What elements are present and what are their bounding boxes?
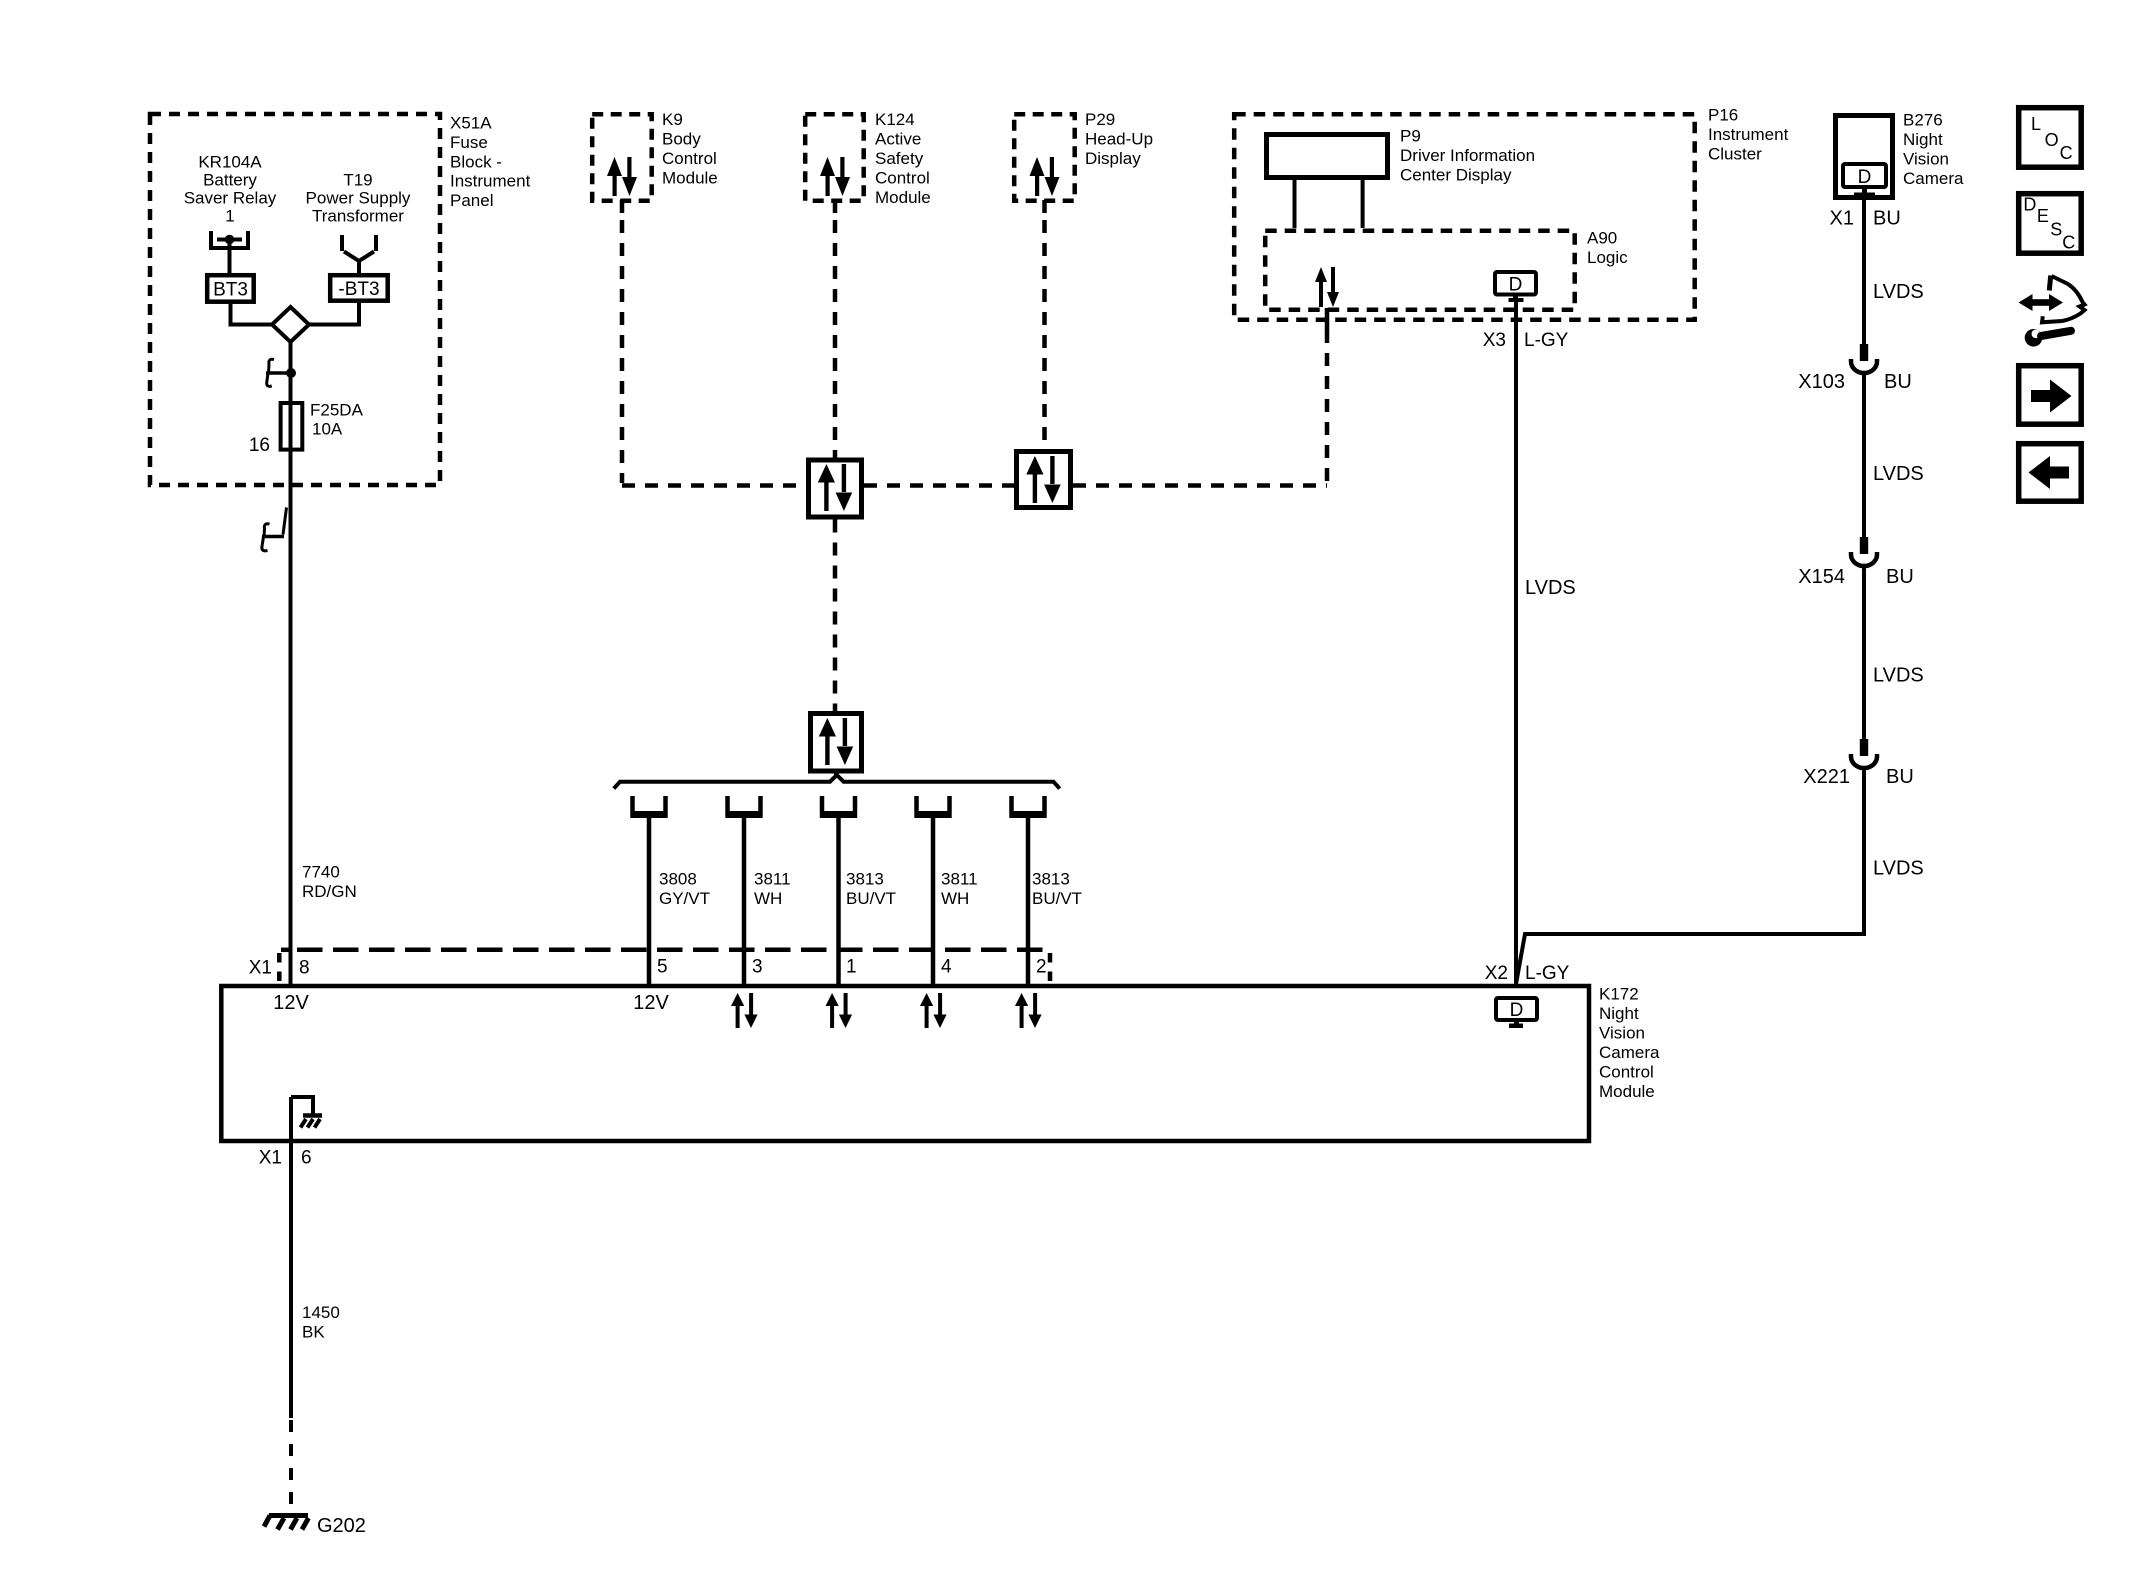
svg-text:K124: K124	[875, 110, 915, 129]
svg-text:12V: 12V	[633, 992, 669, 1014]
svg-text:Body: Body	[662, 130, 701, 149]
svg-text:G202: G202	[317, 1515, 366, 1537]
svg-text:WH: WH	[754, 889, 782, 908]
svg-text:5: 5	[657, 957, 668, 978]
svg-text:4: 4	[941, 957, 952, 978]
svg-text:D: D	[2023, 195, 2036, 215]
svg-text:X221: X221	[1803, 766, 1850, 788]
svg-text:E: E	[2037, 206, 2049, 226]
svg-text:X1: X1	[1830, 208, 1854, 230]
svg-text:K172: K172	[1599, 985, 1639, 1004]
svg-text:1: 1	[225, 207, 234, 226]
svg-text:Panel: Panel	[450, 191, 493, 210]
svg-text:Cluster: Cluster	[1708, 145, 1762, 164]
svg-text:3: 3	[752, 957, 763, 978]
svg-text:BU: BU	[1886, 766, 1914, 788]
svg-text:LVDS: LVDS	[1873, 281, 1924, 303]
svg-text:T19: T19	[343, 171, 372, 190]
svg-text:16: 16	[249, 435, 270, 456]
svg-text:1450: 1450	[302, 1303, 340, 1322]
svg-text:Power Supply: Power Supply	[306, 189, 411, 208]
svg-text:X1: X1	[249, 958, 272, 979]
svg-text:Block -: Block -	[450, 152, 502, 171]
svg-text:D: D	[1510, 1000, 1524, 1021]
svg-text:D: D	[1509, 275, 1523, 296]
svg-text:10A: 10A	[312, 420, 343, 439]
svg-text:Safety: Safety	[875, 149, 924, 168]
svg-text:X154: X154	[1798, 566, 1845, 588]
svg-text:12V: 12V	[273, 992, 309, 1014]
svg-text:3811: 3811	[754, 870, 791, 889]
svg-text:Active: Active	[875, 130, 921, 149]
svg-text:X1: X1	[259, 1148, 282, 1169]
svg-text:Night: Night	[1599, 1004, 1639, 1023]
svg-text:Vision: Vision	[1903, 150, 1949, 169]
svg-text:BT3: BT3	[213, 280, 248, 301]
svg-text:Head-Up: Head-Up	[1085, 130, 1153, 149]
svg-text:F25DA: F25DA	[310, 401, 364, 420]
svg-text:Night: Night	[1903, 130, 1943, 149]
svg-text:A90: A90	[1587, 229, 1617, 248]
svg-text:-BT3: -BT3	[338, 279, 379, 300]
svg-text:8: 8	[299, 958, 310, 979]
svg-text:Module: Module	[662, 169, 718, 188]
svg-text:BK: BK	[302, 1323, 325, 1342]
svg-text:Control: Control	[875, 169, 930, 188]
svg-text:3808: 3808	[659, 870, 697, 889]
svg-text:C: C	[2060, 143, 2073, 163]
svg-text:Camera: Camera	[1903, 169, 1964, 188]
svg-text:C: C	[2062, 232, 2075, 252]
svg-text:Vision: Vision	[1599, 1024, 1645, 1043]
svg-text:Display: Display	[1085, 149, 1141, 168]
svg-text:L: L	[2031, 114, 2041, 134]
svg-text:RD/GN: RD/GN	[302, 882, 357, 901]
svg-text:6: 6	[301, 1148, 312, 1169]
svg-text:GY/VT: GY/VT	[659, 889, 710, 908]
svg-text:2: 2	[1036, 957, 1047, 978]
svg-text:7740: 7740	[302, 863, 340, 882]
svg-text:BU: BU	[1873, 208, 1901, 230]
svg-text:K9: K9	[662, 110, 683, 129]
svg-text:LVDS: LVDS	[1873, 463, 1924, 485]
svg-text:3813: 3813	[1032, 870, 1070, 889]
svg-text:O: O	[2045, 130, 2059, 150]
svg-text:Control: Control	[1599, 1063, 1654, 1082]
svg-text:P9: P9	[1400, 127, 1421, 146]
svg-text:Camera: Camera	[1599, 1043, 1660, 1062]
svg-text:B276: B276	[1903, 111, 1943, 130]
svg-text:BU: BU	[1886, 566, 1914, 588]
svg-text:KR104A: KR104A	[198, 153, 262, 172]
svg-text:3811: 3811	[941, 870, 978, 889]
svg-text:Instrument: Instrument	[450, 172, 531, 191]
svg-text:Driver Information: Driver Information	[1400, 146, 1535, 165]
svg-text:3813: 3813	[846, 870, 884, 889]
svg-text:Control: Control	[662, 149, 717, 168]
svg-text:Fuse: Fuse	[450, 133, 488, 152]
svg-text:BU: BU	[1884, 371, 1912, 393]
svg-text:Logic: Logic	[1587, 248, 1628, 267]
svg-text:Instrument: Instrument	[1708, 125, 1789, 144]
svg-text:Transformer: Transformer	[312, 207, 404, 226]
svg-text:S: S	[2050, 220, 2062, 240]
svg-text:X51A: X51A	[450, 114, 492, 133]
svg-text:BU/VT: BU/VT	[1032, 889, 1082, 908]
svg-text:Module: Module	[875, 188, 931, 207]
svg-text:L-GY: L-GY	[1525, 963, 1570, 984]
svg-text:LVDS: LVDS	[1873, 665, 1924, 687]
svg-text:Battery: Battery	[203, 171, 257, 190]
svg-text:Center Display: Center Display	[1400, 166, 1512, 185]
svg-text:LVDS: LVDS	[1525, 577, 1576, 599]
svg-text:LVDS: LVDS	[1873, 857, 1924, 879]
svg-text:X3: X3	[1483, 330, 1506, 351]
svg-text:D: D	[1858, 167, 1872, 188]
svg-text:L-GY: L-GY	[1524, 330, 1569, 351]
svg-text:Module: Module	[1599, 1082, 1655, 1101]
svg-text:WH: WH	[941, 889, 969, 908]
svg-text:BU/VT: BU/VT	[846, 889, 896, 908]
svg-text:X2: X2	[1485, 963, 1508, 984]
svg-text:P29: P29	[1085, 110, 1115, 129]
svg-text:Saver Relay: Saver Relay	[184, 189, 277, 208]
svg-text:P16: P16	[1708, 106, 1738, 125]
svg-text:1: 1	[846, 957, 857, 978]
svg-text:X103: X103	[1798, 371, 1845, 393]
